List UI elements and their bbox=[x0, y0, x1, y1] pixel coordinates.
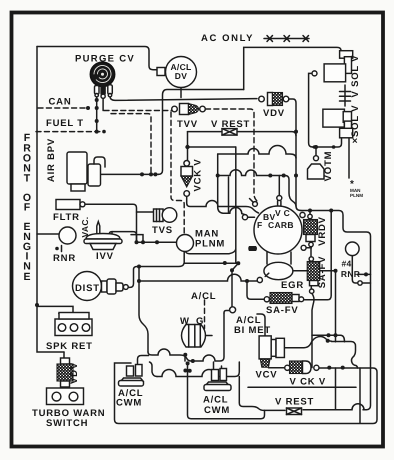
svg-text:*: * bbox=[350, 179, 354, 190]
svg-text:TVS: TVS bbox=[152, 225, 173, 236]
svg-text:DV: DV bbox=[175, 71, 187, 81]
svg-text:VCV: VCV bbox=[256, 370, 278, 381]
svg-text:PURGE CV: PURGE CV bbox=[75, 54, 135, 65]
svg-text:V REST: V REST bbox=[211, 119, 250, 130]
svg-text:CAN: CAN bbox=[49, 97, 72, 108]
svg-text:#4: #4 bbox=[342, 259, 352, 269]
svg-text:CARB: CARB bbox=[268, 220, 294, 230]
svg-text:SPK RET: SPK RET bbox=[46, 341, 93, 352]
svg-text:V REST: V REST bbox=[275, 397, 314, 408]
svg-text:TVV: TVV bbox=[177, 119, 198, 130]
svg-text:V CK V: V CK V bbox=[290, 377, 326, 388]
svg-text:AIR BPV: AIR BPV bbox=[46, 138, 57, 182]
svg-text:RNR: RNR bbox=[53, 253, 76, 264]
svg-text:VCK V: VCK V bbox=[193, 158, 204, 191]
svg-text:SWITCH: SWITCH bbox=[46, 418, 88, 429]
svg-text:IVV: IVV bbox=[96, 251, 114, 262]
svg-text:FUEL T: FUEL T bbox=[46, 118, 84, 129]
svg-text:CWM: CWM bbox=[116, 398, 142, 409]
svg-text:AC ONLY: AC ONLY bbox=[201, 33, 254, 44]
svg-text:DIST: DIST bbox=[75, 283, 100, 294]
svg-text:W: W bbox=[180, 316, 190, 327]
svg-text:CWM: CWM bbox=[204, 405, 230, 416]
svg-text:VDV: VDV bbox=[69, 362, 80, 384]
svg-text:SA-FV: SA-FV bbox=[317, 256, 328, 289]
svg-text:G: G bbox=[196, 316, 204, 327]
svg-text:F: F bbox=[24, 202, 31, 214]
svg-text:A/CL: A/CL bbox=[203, 395, 228, 406]
svg-text:×SOL V: ×SOL V bbox=[350, 105, 361, 144]
svg-text:E: E bbox=[23, 271, 30, 283]
svg-text:T: T bbox=[24, 173, 31, 185]
svg-text:FLTR: FLTR bbox=[53, 212, 80, 223]
svg-text:VDV: VDV bbox=[263, 108, 285, 119]
svg-text:VAC.: VAC. bbox=[80, 217, 90, 238]
svg-text:PLNM: PLNM bbox=[195, 239, 225, 250]
svg-text:RNR: RNR bbox=[341, 269, 360, 279]
svg-text:VRDV: VRDV bbox=[317, 216, 328, 246]
svg-text:V C: V C bbox=[275, 208, 290, 218]
svg-text:BI MET: BI MET bbox=[234, 325, 271, 336]
svg-text:PLNM: PLNM bbox=[350, 193, 363, 198]
svg-text:EGR: EGR bbox=[281, 280, 304, 291]
svg-text:V SOL V: V SOL V bbox=[350, 55, 361, 98]
svg-text:SA-FV: SA-FV bbox=[266, 305, 299, 316]
svg-text:VOTM: VOTM bbox=[323, 151, 334, 182]
svg-text:F: F bbox=[257, 220, 263, 230]
svg-text:A/CL: A/CL bbox=[191, 291, 216, 302]
